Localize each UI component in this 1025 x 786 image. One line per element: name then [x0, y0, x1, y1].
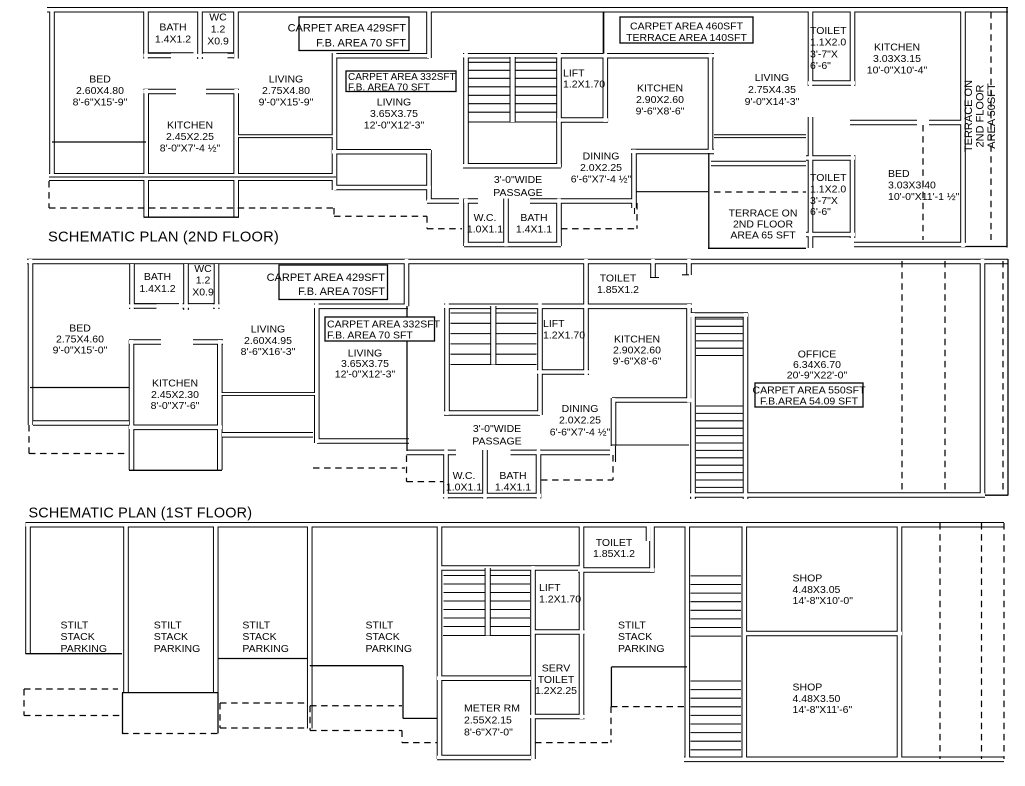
bottom wall: [684, 756, 1004, 762]
bath wc divider: [183, 264, 189, 310]
wc sill line: [188, 303, 214, 305]
stair2 tread up: [691, 575, 742, 577]
wc sill line: [202, 52, 233, 54]
svg-text:WC: WC: [209, 12, 227, 24]
svg-text:12'-0"X12'-3": 12'-0"X12'-3": [364, 119, 425, 131]
stair2 tread low: [691, 680, 742, 682]
svg-text:1.4X1.1: 1.4X1.1: [495, 481, 531, 493]
svg-text:BATH: BATH: [144, 271, 171, 283]
bath bottom wall: [129, 303, 220, 309]
office stair tread low: [696, 405, 743, 407]
office stair tread: [696, 333, 743, 335]
stair2 tread up: [691, 635, 742, 637]
stair left wall: [463, 53, 469, 168]
svg-text:STILT: STILT: [61, 620, 89, 632]
svg-text:3'-7"X: 3'-7"X: [810, 48, 838, 60]
top wall: [27, 259, 1008, 265]
living1 bottom wall: [220, 392, 317, 396]
svg-text:2.75X4.35: 2.75X4.35: [748, 84, 796, 96]
bay2 dashed bottom: [122, 733, 218, 735]
svg-text:STACK: STACK: [61, 631, 95, 643]
svg-text:SHOP: SHOP: [793, 682, 823, 694]
bed2 top wall: [850, 120, 963, 126]
carpet box 429 f1: [267, 265, 388, 300]
lift right wall: [583, 259, 589, 375]
wc right wall: [233, 11, 239, 59]
svg-text:20'-9"X22'-0": 20'-9"X22'-0": [787, 369, 848, 381]
svg-text:2.60X4.80: 2.60X4.80: [76, 85, 124, 97]
svg-text:PARKING: PARKING: [154, 643, 200, 655]
bed balcony dashed line: [29, 453, 129, 455]
bay1 dashed line 1: [24, 688, 118, 690]
toilet right wall: [850, 11, 856, 238]
floor plan: 2nd floor: [47, 8, 1008, 248]
stair left wall: [444, 304, 450, 416]
dining dashed vert: [612, 455, 614, 480]
svg-text:TERRACE AREA 140SFT: TERRACE AREA 140SFT: [626, 32, 747, 44]
svg-text:1.4X1.1: 1.4X1.1: [516, 224, 552, 236]
svg-text:F.B. AREA 70SFT: F.B. AREA 70SFT: [298, 286, 385, 298]
kitchen box left wall: [143, 89, 149, 217]
stair2 tread up: [691, 618, 742, 620]
carpet box 332 f1: [325, 317, 441, 342]
svg-text:KITCHEN: KITCHEN: [152, 378, 198, 390]
parking wall 1: [123, 523, 129, 693]
bay3 dashed vert: [219, 703, 221, 728]
svg-text:4.48X3.50: 4.48X3.50: [793, 693, 841, 705]
svg-text:LIFT: LIFT: [543, 318, 565, 330]
office stair tread low: [696, 479, 743, 481]
stair right wall: [537, 304, 543, 416]
stair tread: [469, 69, 557, 71]
office stair tread low: [696, 457, 743, 459]
svg-text:6'-6": 6'-6": [810, 60, 831, 72]
bed balcony bottom wall: [33, 420, 129, 426]
svg-text:PARKING: PARKING: [242, 643, 288, 655]
dining dashed line: [561, 228, 637, 230]
kitchen top wall: [129, 339, 223, 345]
kitchen box bottom line: [144, 216, 240, 218]
parking bay3 bottom line: [218, 658, 308, 660]
svg-text:2.45X2.30: 2.45X2.30: [151, 389, 199, 401]
wc left wall: [443, 450, 449, 499]
svg-text:6'-6": 6'-6": [810, 206, 831, 218]
dining wall tail line: [615, 446, 617, 462]
office stair right wall: [743, 313, 749, 499]
svg-text:PARKING: PARKING: [366, 643, 412, 655]
office stair tread low: [696, 435, 743, 437]
passage south line: [636, 191, 708, 193]
top wall: [47, 7, 1008, 13]
stair bottom wall: [444, 410, 540, 416]
svg-text:STACK: STACK: [242, 631, 276, 643]
wall hollow interior (white pass): [27, 259, 1008, 499]
kitchen door jamb line: [682, 274, 689, 276]
svg-text:DINING: DINING: [562, 403, 599, 415]
svg-text:2.0X2.25: 2.0X2.25: [580, 162, 622, 174]
office stair top wall: [690, 312, 748, 318]
bay3 dashed line 1: [220, 702, 308, 704]
wc left wall: [463, 199, 469, 247]
svg-text:6'-6"X7'-4 ½": 6'-6"X7'-4 ½": [550, 426, 611, 438]
bay4 dashed vert 1: [309, 706, 311, 731]
svg-text:8'-6"X15'-9": 8'-6"X15'-9": [73, 96, 128, 108]
svg-text:LIVING: LIVING: [377, 97, 411, 109]
passage dashed step: [426, 216, 428, 228]
carpet box 429 f2: [288, 17, 409, 51]
living2 top wall: [334, 53, 429, 59]
office dashed 1: [901, 261, 903, 492]
unit divider wall: [404, 259, 410, 306]
balcony dashed line 2: [334, 215, 427, 217]
svg-text:X0.9: X0.9: [192, 286, 214, 298]
terrace left line: [708, 153, 710, 248]
carpet box 460 f2: [620, 17, 753, 44]
svg-text:F.B. AREA 70 SFT: F.B. AREA 70 SFT: [348, 82, 430, 93]
stair right wall: [530, 566, 536, 759]
bed2 bottom wall: [854, 242, 966, 248]
toilet bottom wall: [578, 567, 655, 573]
svg-text:SCHEMATIC PLAN (2ND FLOOR): SCHEMATIC PLAN (2ND FLOOR): [48, 230, 279, 246]
kitchen2 right wall: [708, 54, 714, 154]
stair tread: [469, 77, 557, 79]
parking wall 4: [437, 523, 443, 759]
bed2 right bottom line: [966, 246, 1007, 248]
svg-text:9'-0"X15'-9": 9'-0"X15'-9": [259, 96, 314, 108]
svg-text:TOILET: TOILET: [810, 172, 847, 184]
svg-text:TOILET: TOILET: [538, 674, 575, 686]
stair tread: [469, 111, 557, 113]
meter room bottom wall: [437, 755, 531, 761]
porch dashed 1: [939, 523, 941, 759]
svg-text:1.0X1.1: 1.0X1.1: [467, 224, 503, 236]
office bottom wall: [690, 492, 985, 498]
svg-text:9'-6"X8'-6": 9'-6"X8'-6": [636, 105, 685, 117]
bay2 ext left line: [122, 693, 124, 734]
stair2 tread up: [691, 592, 742, 594]
kitchen box right wall: [233, 89, 239, 217]
svg-text:KITCHEN: KITCHEN: [167, 120, 213, 132]
living2 top wall: [314, 303, 408, 309]
balcony2 top wall: [332, 149, 431, 155]
svg-text:3'-0"WIDE: 3'-0"WIDE: [494, 174, 542, 186]
wc bath bottom wall: [443, 493, 541, 499]
bath right wall: [536, 450, 542, 499]
svg-text:2.55X2.15: 2.55X2.15: [464, 714, 512, 726]
lift top connector line: [603, 12, 605, 54]
svg-text:STACK: STACK: [366, 631, 400, 643]
svg-text:2.45X2.25: 2.45X2.25: [166, 131, 214, 143]
dining left wall: [631, 150, 637, 209]
wc bath bottom wall: [464, 242, 561, 248]
svg-text:TOILET: TOILET: [600, 273, 637, 285]
unit divider line: [406, 306, 408, 451]
stair top wall: [439, 565, 582, 571]
svg-text:1.2: 1.2: [211, 24, 226, 36]
bay3 dashed line 2: [220, 727, 308, 729]
office stair tread low: [696, 449, 743, 451]
svg-text:9'-0"X14'-3": 9'-0"X14'-3": [745, 96, 800, 108]
bath left wall: [129, 264, 135, 309]
svg-text:STILT: STILT: [366, 620, 394, 632]
svg-text:14'-8"X11'-6": 14'-8"X11'-6": [793, 704, 853, 716]
bath sill line: [149, 52, 194, 54]
stair2 tread low: [691, 706, 742, 708]
office stair tread low: [696, 442, 743, 444]
floor plan: 1st floor: [27, 259, 1008, 499]
left wall: [49, 8, 55, 180]
office stair tread low: [696, 420, 743, 422]
lift bottom wall: [533, 629, 585, 635]
svg-text:1.2X1.70: 1.2X1.70: [539, 594, 581, 606]
svg-text:F.B. AREA 70 SFT: F.B. AREA 70 SFT: [316, 38, 406, 50]
svg-text:2.0X2.25: 2.0X2.25: [559, 415, 601, 427]
office dashed 2: [944, 261, 946, 492]
svg-text:PARKING: PARKING: [618, 643, 664, 655]
unit divider wall: [426, 8, 432, 58]
parking wall 3: [307, 523, 313, 729]
svg-text:BATH: BATH: [499, 470, 526, 482]
bath dashed line: [541, 479, 613, 481]
kitchen box left wall: [129, 340, 135, 470]
stair tread: [444, 609, 531, 611]
svg-text:9'-6"X8'-6": 9'-6"X8'-6": [613, 356, 662, 368]
parking wall 2: [213, 523, 219, 693]
porch dashed 3: [1003, 523, 1005, 759]
svg-text:BED: BED: [89, 74, 111, 86]
office stair tread low: [696, 472, 743, 474]
svg-text:3.65X3.75: 3.65X3.75: [370, 108, 418, 120]
bath left wall: [143, 11, 149, 59]
bay4 dashed line 1: [310, 705, 402, 707]
bath bottom wall: [144, 53, 235, 59]
svg-text:1.1X2.0: 1.1X2.0: [810, 37, 846, 49]
office stair tread: [696, 325, 743, 327]
stair2 right wall: [741, 523, 747, 761]
stair landing line: [443, 635, 530, 637]
serv toilet bottom wall: [530, 714, 585, 720]
serv dashed line: [535, 742, 611, 744]
bay2 ext right line: [217, 693, 219, 734]
bed bottom line: [52, 141, 146, 143]
dining wall tail line: [634, 208, 636, 214]
main bottom wall: [49, 173, 336, 181]
svg-text:1.0X1.1: 1.0X1.1: [446, 481, 482, 493]
bath wc divider: [197, 11, 203, 59]
passage wall: [427, 198, 633, 204]
stair2 tread up: [691, 601, 742, 603]
svg-text:1.85X1.2: 1.85X1.2: [597, 284, 639, 296]
svg-text:2.60X4.95: 2.60X4.95: [244, 335, 292, 347]
kitchen2 bottom wall: [612, 397, 692, 403]
stair stringer: [490, 306, 496, 365]
svg-text:PARKING: PARKING: [61, 643, 107, 655]
bath right wall: [556, 199, 562, 247]
svg-text:8'-0"X7'-4 ½": 8'-0"X7'-4 ½": [160, 142, 221, 154]
stair landing line: [469, 121, 557, 123]
svg-text:F.B.AREA 54.09 SFT: F.B.AREA 54.09 SFT: [760, 396, 859, 408]
svg-text:DINING: DINING: [583, 151, 620, 163]
stilt bottom line: [611, 666, 687, 668]
svg-text:F.B. AREA 70 SFT: F.B. AREA 70 SFT: [327, 330, 413, 342]
balcony dashed line: [49, 207, 334, 209]
stair2 tread low: [691, 732, 742, 734]
svg-text:1.1X2.0: 1.1X2.0: [810, 183, 846, 195]
svg-text:AREA 65 SFT: AREA 65 SFT: [730, 230, 796, 242]
dining dashed vert: [636, 203, 638, 229]
stair tread: [451, 364, 537, 366]
porch dashed 2: [981, 523, 983, 759]
toilet door stub: [650, 259, 656, 278]
stair tread: [444, 600, 531, 602]
outer terrace right line: [1006, 8, 1008, 248]
stair tread: [451, 343, 537, 345]
stair tread: [469, 86, 557, 88]
dining right wall: [611, 398, 617, 446]
stair2 left wall: [684, 523, 690, 761]
parking bay4 step line: [403, 717, 437, 719]
stair2 tread up: [691, 584, 742, 586]
bottom right line: [985, 494, 1008, 496]
svg-text:SCHEMATIC PLAN (1ST FLOOR): SCHEMATIC PLAN (1ST FLOOR): [29, 506, 253, 522]
wall hollow interior (white pass): [26, 523, 1005, 761]
svg-text:8'-6"X16'-3": 8'-6"X16'-3": [241, 346, 296, 358]
svg-text:TERRACE ON: TERRACE ON: [963, 80, 975, 152]
svg-text:SHOP: SHOP: [793, 573, 823, 585]
stair tread: [451, 333, 537, 335]
living1 bottom wall: [236, 134, 336, 138]
bed bottom line: [30, 387, 130, 389]
office right wall: [980, 259, 986, 496]
stair tread: [444, 626, 531, 628]
stair tread: [444, 575, 531, 577]
stair2 tread low: [691, 697, 742, 699]
shop divider wall: [744, 631, 902, 637]
stair2 tread low: [691, 749, 742, 751]
stair2 tread up: [691, 609, 742, 611]
balcony2 dashed line: [313, 467, 405, 469]
lift bottom wall: [537, 369, 589, 375]
svg-text:8'-6"X7'-0": 8'-6"X7'-0": [464, 726, 513, 738]
stair tread: [451, 353, 537, 355]
stair tread: [444, 592, 531, 594]
office stair tread: [696, 355, 743, 357]
svg-text:BATH: BATH: [159, 22, 186, 34]
stair stringer: [485, 568, 491, 636]
svg-text:3'-0"WIDE: 3'-0"WIDE: [473, 423, 521, 435]
office stair tread: [696, 318, 743, 320]
bay1 dashed vert: [23, 689, 25, 716]
toilet stub sill: [650, 277, 659, 279]
stair2 tread low: [691, 740, 742, 742]
stair right wall: [556, 53, 562, 168]
svg-text:1.4X1.2: 1.4X1.2: [139, 283, 175, 295]
stairlift top wall: [444, 303, 692, 309]
stair tread: [469, 103, 557, 105]
svg-text:AREA 50SFT: AREA 50SFT: [986, 83, 998, 149]
stair tread: [469, 94, 557, 96]
bay4 dashed vert 2: [401, 731, 403, 743]
svg-text:LIVING: LIVING: [269, 74, 303, 86]
carpet box 550 f1: [752, 383, 866, 408]
stair tread: [444, 617, 531, 619]
svg-text:1.2: 1.2: [196, 275, 211, 287]
svg-text:STACK: STACK: [154, 631, 188, 643]
bath sill line: [134, 303, 179, 305]
svg-text:CARPET AREA 460SFT: CARPET AREA 460SFT: [630, 21, 744, 33]
svg-text:CARPET AREA 429SFT: CARPET AREA 429SFT: [267, 272, 386, 284]
svg-text:10'-0"X10'-4": 10'-0"X10'-4": [867, 64, 928, 76]
parking bay4 step vert: [402, 666, 404, 719]
terrace bottom line: [708, 247, 806, 249]
office stair left wall: [690, 313, 696, 499]
stair tread: [469, 61, 557, 63]
floor plan: ground floor stilt parking: [26, 523, 1005, 761]
living2 left wall: [314, 304, 320, 444]
svg-text:1.2X1.70: 1.2X1.70: [563, 79, 605, 91]
svg-text:W.C.: W.C.: [474, 212, 497, 224]
svg-text:CARPET AREA 429SFT: CARPET AREA 429SFT: [288, 23, 407, 35]
svg-text:STILT: STILT: [618, 620, 646, 632]
toilet door stub: [646, 526, 652, 541]
svg-text:12'-0"X12'-3": 12'-0"X12'-3": [335, 369, 396, 381]
office stair tread low: [696, 412, 743, 414]
balcony2 dashed step: [406, 456, 408, 482]
svg-text:6'-6"X7'-4 ½": 6'-6"X7'-4 ½": [571, 173, 632, 185]
stair stringer: [509, 57, 515, 122]
stair2 tread low: [691, 723, 742, 725]
living3 right wall: [808, 11, 814, 248]
svg-text:2.75X4.80: 2.75X4.80: [262, 85, 310, 97]
svg-text:LIVING: LIVING: [251, 324, 285, 336]
svg-text:3'-7"X: 3'-7"X: [810, 195, 838, 207]
kitchen box bottom line: [129, 469, 222, 471]
office stair tread: [696, 340, 743, 342]
svg-text:9'-0"X15'-0": 9'-0"X15'-0": [53, 345, 108, 357]
left wall: [28, 259, 34, 425]
wc bath divider: [503, 199, 509, 247]
svg-text:LIVING: LIVING: [755, 72, 789, 84]
lift right wall: [579, 523, 585, 719]
top wall: [26, 522, 1005, 528]
left wall: [25, 523, 31, 654]
passage wall: [407, 450, 611, 456]
stair bottom wall: [463, 163, 561, 169]
toilet2 bottom wall: [806, 232, 855, 238]
wc right wall: [214, 264, 220, 309]
stair tread: [451, 312, 537, 314]
wc bath divider: [482, 450, 488, 499]
svg-text:METER RM: METER RM: [464, 703, 520, 715]
kitchen lower wall: [129, 424, 222, 430]
stair2 tread low: [691, 689, 742, 691]
stairlift top wall: [463, 53, 714, 59]
svg-text:W.C.: W.C.: [453, 470, 476, 482]
lift bottom wall: [557, 117, 608, 123]
svg-text:KITCHEN: KITCHEN: [874, 42, 920, 54]
bed balcony dashed vert: [28, 425, 30, 454]
svg-text:4.48X3.05: 4.48X3.05: [793, 584, 841, 596]
svg-text:STACK: STACK: [618, 631, 652, 643]
parking bay4 bottom line: [310, 665, 403, 667]
stilt step vert line: [610, 667, 612, 707]
stair2 tread low: [691, 714, 742, 716]
office dashed 3: [1002, 261, 1004, 492]
svg-text:STILT: STILT: [242, 620, 270, 632]
kitchen2 bottom wall: [631, 149, 714, 155]
living2 left wall: [332, 53, 338, 190]
svg-text:PASSAGE: PASSAGE: [472, 435, 521, 447]
